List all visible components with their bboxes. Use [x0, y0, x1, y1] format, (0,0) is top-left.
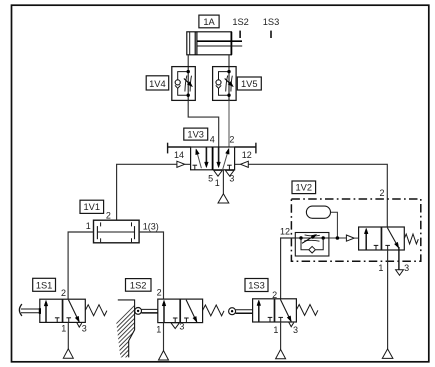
compressed air supply under 1S1	[63, 349, 73, 358]
svg-text:2: 2	[61, 288, 66, 298]
wire 1V2 port 12 to 1S3 port 2	[281, 238, 296, 299]
svg-text:5: 5	[208, 174, 213, 184]
svg-text:2: 2	[272, 290, 277, 300]
label 1S2	[126, 279, 152, 292]
compressed air supply under 1V2	[382, 349, 393, 359]
3/2 push-button valve 1S1	[40, 299, 86, 322]
3/2 roller valve 1S3	[253, 299, 297, 322]
svg-text:1A: 1A	[203, 17, 215, 27]
svg-text:1V1: 1V1	[84, 202, 101, 212]
wire 1V3 pilot 14 to 1V1 port 2	[117, 164, 177, 220]
cylinder 1A body	[187, 32, 232, 55]
svg-text:1V5: 1V5	[241, 79, 258, 89]
svg-text:2: 2	[229, 134, 234, 144]
1V2 one-way flow control	[295, 233, 329, 257]
svg-text:3: 3	[229, 174, 234, 184]
compressed air supply under 1S3	[276, 349, 286, 358]
1V3 left position flow paths	[197, 152, 202, 168]
label 1V2	[292, 181, 316, 194]
svg-text:14: 14	[174, 150, 184, 160]
svg-text:3: 3	[179, 321, 184, 331]
1V2 exhaust triangle 3	[396, 270, 404, 276]
1V3 right position flow paths	[218, 147, 220, 164]
label 1V1	[80, 200, 104, 213]
label 1V4	[146, 76, 169, 90]
wire 1V3 pilot 12 to 1V2 port 2	[248, 164, 387, 227]
svg-text:3: 3	[82, 324, 87, 334]
1S2 roller actuator	[135, 308, 142, 315]
wire 1V5 to 1V3 port 2	[228, 100, 230, 147]
3/2 valve inside 1V2	[359, 227, 405, 250]
svg-text:1: 1	[273, 325, 278, 335]
1S3 spring return	[296, 305, 318, 316]
1V3 exhaust port 3	[225, 170, 234, 176]
wire 1V1 port 1 to 1S1 port 2	[68, 232, 93, 299]
svg-text:12: 12	[280, 227, 290, 237]
1V3 end stub left	[168, 146, 191, 148]
label 1S1	[33, 278, 56, 291]
1S1 push button actuator	[21, 308, 40, 310]
wire 1V1 port 1(3) to 1S2 port 2	[139, 232, 163, 299]
label 1V5	[237, 77, 261, 90]
svg-text:1V3: 1V3	[187, 130, 204, 140]
svg-text:1S3: 1S3	[248, 280, 265, 290]
svg-text:12: 12	[242, 150, 252, 160]
wire 1V4 to 1V3 port 4	[188, 100, 219, 147]
wire cylinder right port to 1V5	[228, 55, 230, 67]
svg-text:1V4: 1V4	[149, 79, 166, 89]
one-way flow control valve 1V5	[213, 67, 237, 101]
svg-text:1S3: 1S3	[263, 17, 280, 27]
svg-text:1: 1	[215, 178, 220, 188]
compressed air supply under 1S2	[159, 351, 169, 360]
label 1S3	[245, 279, 268, 292]
1V2 pilot triangle	[346, 235, 354, 241]
junction node	[336, 236, 340, 240]
label 1V3	[184, 128, 208, 140]
5/2 directional valve 1V3 body	[191, 147, 235, 170]
svg-text:1(3): 1(3)	[143, 221, 159, 231]
svg-text:4: 4	[210, 134, 215, 144]
wire reservoir to pilot junction	[331, 212, 338, 238]
cylinder 1A piston rod	[197, 40, 242, 42]
position marker tick 1S2	[239, 31, 241, 38]
wire cylinder left port to 1V4	[187, 55, 189, 67]
1V3 exhaust port 5	[214, 170, 223, 176]
svg-text:3: 3	[293, 325, 298, 335]
svg-text:1S2: 1S2	[232, 17, 249, 27]
svg-text:1: 1	[61, 324, 66, 334]
svg-text:1: 1	[156, 324, 161, 334]
1S3 roller actuator	[229, 308, 236, 315]
wire 1S3 port 1 to supply	[280, 322, 282, 349]
svg-text:1V2: 1V2	[296, 183, 313, 193]
1V2 flow control bypass check valve	[301, 238, 309, 250]
wire flow control to pilot of 1V2 valve	[329, 237, 347, 239]
1S2 exhaust triangle 3	[171, 323, 180, 329]
1S2 spring return	[203, 305, 224, 316]
position marker tick 1S3	[270, 31, 272, 38]
1V3 pilot port 14	[177, 161, 185, 167]
wire 1S2 port 1 to supply	[163, 323, 165, 351]
svg-text:2: 2	[106, 211, 111, 221]
svg-text:2: 2	[157, 287, 162, 297]
svg-text:1: 1	[86, 221, 91, 231]
svg-text:1S2: 1S2	[130, 280, 147, 290]
1V3 pilot port 12	[241, 161, 249, 167]
1V2 spring return	[404, 234, 418, 244]
two-pressure valve 1V1 (AND)	[94, 220, 140, 243]
1V2 air reservoir	[306, 206, 330, 218]
compressed air supply under 1V3	[218, 194, 229, 203]
1S1 spring return	[85, 305, 107, 316]
svg-text:2: 2	[379, 188, 384, 198]
3/2 roller valve 1S2 (actuated)	[158, 299, 203, 323]
wire 1S1 port 1 to supply	[67, 322, 69, 348]
wire 1V2 exhaust port 3	[398, 247, 400, 270]
1V3 end stub right	[235, 146, 256, 148]
time delay valve 1V2 dash-dot enclosure	[291, 199, 420, 261]
svg-text:1S1: 1S1	[36, 280, 53, 290]
one-way flow control valve 1V4	[172, 67, 196, 101]
svg-text:3: 3	[404, 263, 409, 273]
wire 1V2 port 1 to supply	[387, 250, 389, 349]
wire 1V3 port 1 to supply	[222, 170, 224, 194]
label 1A	[199, 15, 219, 28]
svg-text:1: 1	[378, 263, 383, 273]
